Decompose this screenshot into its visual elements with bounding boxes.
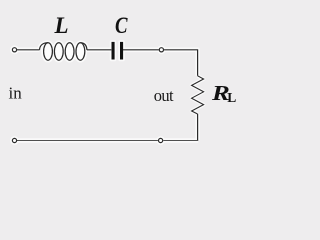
bottom wire: output terminal to right corner: [163, 140, 198, 142]
wire: inductor to capacitor: [87, 49, 111, 51]
svg-text:C: C: [115, 13, 128, 38]
terminal bottom-left: [12, 138, 16, 142]
svg-text:L: L: [227, 90, 236, 105]
resistor R_L zigzag: [192, 76, 204, 114]
terminal top-left: [12, 48, 16, 52]
svg-text:L: L: [54, 13, 69, 38]
svg-text:out: out: [154, 86, 174, 105]
capacitor C plates: [112, 42, 124, 60]
wire: output terminal to top-right corner down to resistor: [164, 50, 198, 76]
bottom wire: left terminal to output terminal: [17, 140, 158, 142]
terminal top-out: [159, 48, 163, 52]
terminal bottom-out: [159, 138, 163, 142]
wire top-left: input terminal to inductor: [17, 49, 40, 51]
wire: resistor bottom to bottom rail: [197, 114, 199, 141]
white halo layer under circuit strokes: [12, 42, 203, 143]
svg-text:in: in: [9, 83, 23, 102]
inductor loop interiors (white fill): [44, 43, 85, 60]
inductor L: [40, 43, 87, 60]
wire: capacitor to output terminal: [123, 49, 159, 51]
